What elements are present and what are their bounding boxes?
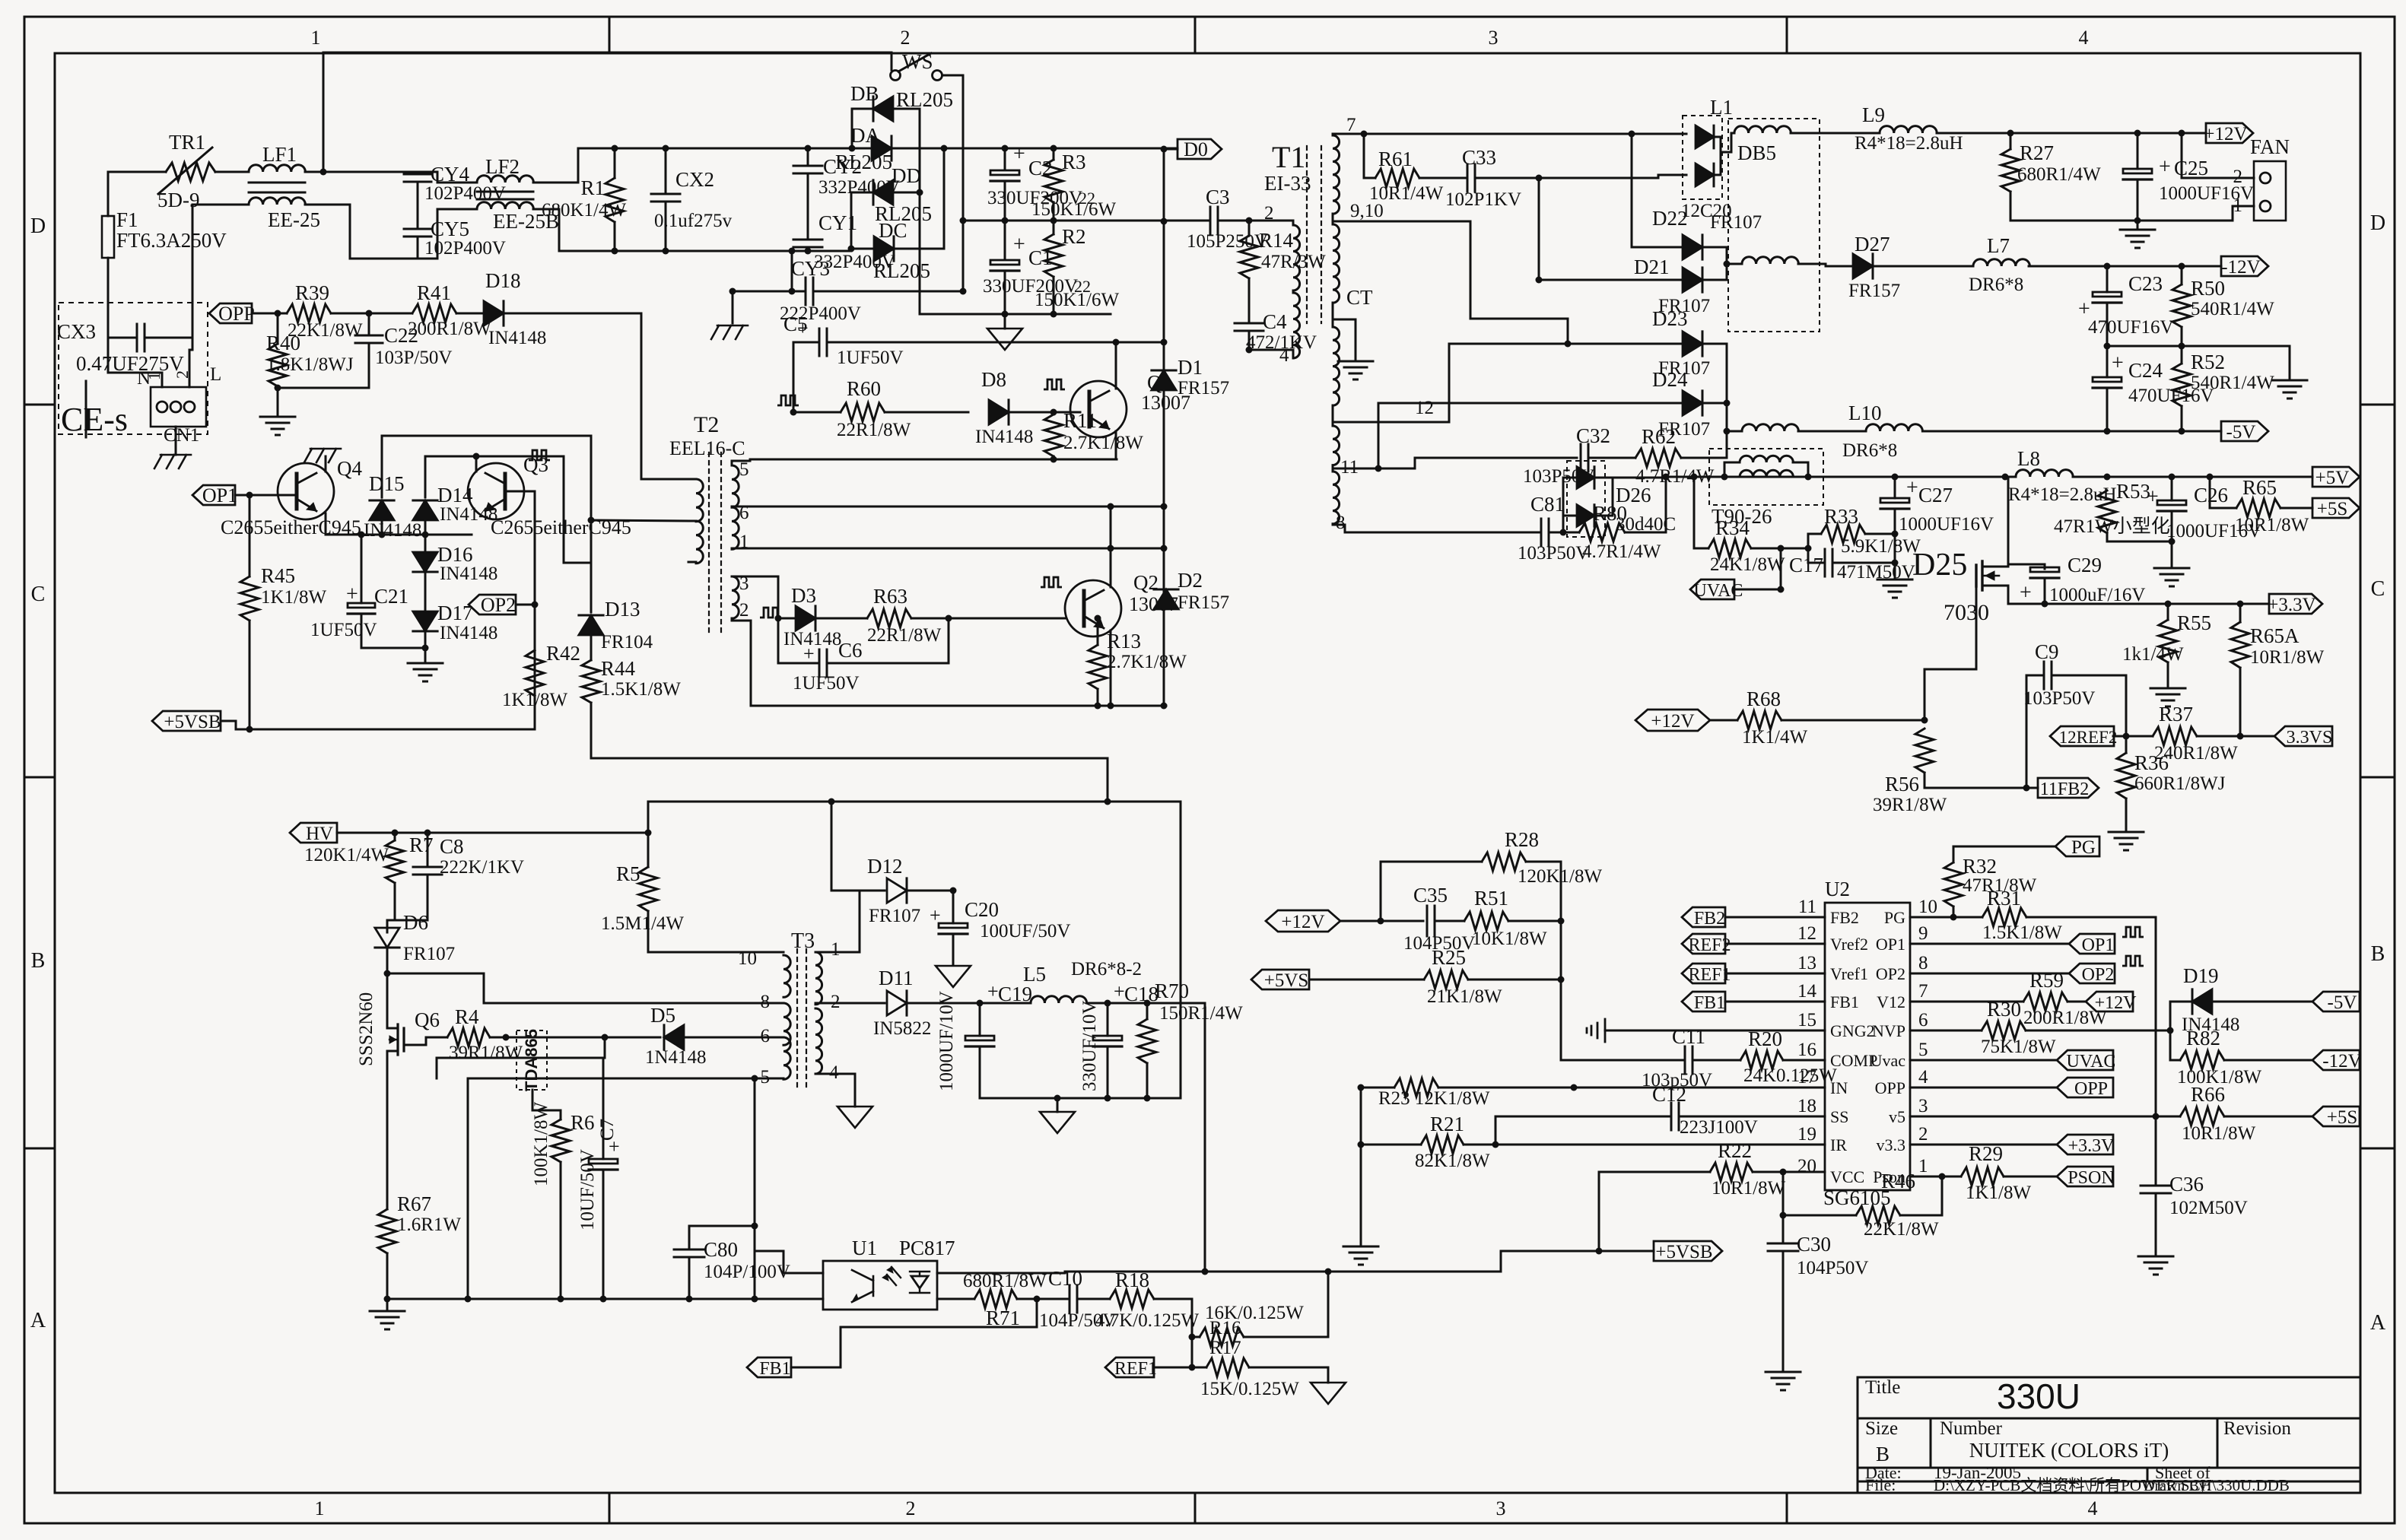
svg-text:GNG2: GNG2 [1830, 1021, 1875, 1040]
svg-text:File:: File: [1865, 1475, 1896, 1494]
svg-text:Size: Size [1865, 1418, 1898, 1439]
svg-text:22K1/8W: 22K1/8W [1864, 1219, 1939, 1240]
svg-text:C26: C26 [2194, 484, 2228, 506]
resistor R37 240R1/8W [2153, 727, 2197, 745]
svg-text:RL205: RL205 [873, 259, 930, 282]
wire CN1 to chassis ground [175, 427, 177, 455]
svg-text:R13: R13 [1107, 630, 1141, 653]
wire primary ground rail [387, 1298, 823, 1300]
svg-text:B: B [31, 949, 46, 973]
svg-text:D24: D24 [1652, 368, 1688, 391]
svg-text:C8: C8 [440, 835, 464, 858]
wire T3 pin2 row [815, 1002, 885, 1005]
dashed CE-s box [59, 303, 208, 434]
svg-text:R67: R67 [397, 1192, 431, 1215]
svg-text:R37: R37 [2159, 703, 2193, 726]
svg-text:1K1/8W: 1K1/8W [261, 587, 327, 608]
wire pin9 OP1 [1910, 943, 2069, 945]
svg-text:2.7K1/8W: 2.7K1/8W [1107, 652, 1187, 672]
svg-text:R65A: R65A [2250, 624, 2300, 647]
svg-text:NUITEK (COLORS iT): NUITEK (COLORS iT) [1969, 1439, 2169, 1462]
svg-text:+: + [2147, 485, 2159, 509]
svg-text:WS: WS [902, 50, 933, 73]
svg-text:+: + [2112, 351, 2124, 375]
resistor R34 24K1/8W [1694, 477, 1708, 548]
svg-text:FR107: FR107 [403, 944, 455, 964]
svg-text:FB1: FB1 [1694, 993, 1725, 1013]
inductor L9 R4*18=2.8uH [1880, 126, 1937, 133]
wire fan pins [2182, 133, 2254, 178]
svg-text:FR157: FR157 [1848, 281, 1900, 301]
wire [2113, 735, 2153, 738]
svg-text:-12V: -12V [2221, 257, 2260, 278]
net flag HV [290, 823, 337, 843]
zone tick marks [609, 17, 611, 53]
resistor R52 540R1/4W [2181, 346, 2183, 364]
wire snubber loop [831, 802, 833, 891]
capacitor C25 1000UF16V [2137, 133, 2139, 169]
resistor R28 120K1/8W [1381, 862, 1482, 921]
svg-text:SSS2N60: SSS2N60 [356, 992, 377, 1066]
svg-text:3: 3 [1489, 27, 1499, 49]
svg-text:Number: Number [1940, 1418, 2003, 1439]
svg-text:DA: DA [850, 124, 880, 147]
L1 winding +12V [1734, 126, 1791, 133]
svg-text:D1: D1 [1178, 356, 1203, 379]
svg-text:12REF2: 12REF2 [2059, 728, 2118, 747]
wire Q6 source [386, 1051, 389, 1209]
diode D1 FR157 [1152, 370, 1176, 390]
svg-text:24K1/8W: 24K1/8W [1710, 554, 1785, 575]
svg-text:680R1/8W: 680R1/8W [963, 1271, 1047, 1291]
svg-text:1: 1 [315, 1497, 325, 1519]
diode D6 FR107 [375, 928, 399, 948]
pulse waveform symbol [529, 450, 550, 460]
svg-text:D22: D22 [1652, 207, 1688, 230]
pulse waveform symbol [760, 608, 781, 618]
capacitor C33 102P1KV [1419, 177, 1467, 179]
svg-text:39R1/8W: 39R1/8W [1873, 795, 1947, 815]
thermistor TR1 [166, 163, 215, 181]
svg-text:104P50V: 104P50V [1797, 1258, 1868, 1278]
resistor R46 22K1/8W [1856, 1206, 1900, 1224]
wire pin14 [1725, 1001, 1825, 1003]
svg-text:10: 10 [1918, 897, 1937, 917]
wire [1791, 132, 1880, 135]
svg-text:1UF50V: 1UF50V [837, 348, 904, 368]
resistor R42 1K1/8W [526, 650, 544, 696]
svg-text:-5V: -5V [2226, 422, 2256, 443]
wire [108, 172, 166, 216]
transistor Q3 C2655/C945 [468, 463, 524, 519]
toroid choke T90-26 [1709, 449, 1823, 505]
diode D19 IN4148 [2170, 1002, 2190, 1030]
svg-text:540R1/4W: 540R1/4W [2191, 373, 2274, 393]
svg-text:C29: C29 [2068, 554, 2102, 576]
svg-text:C7: C7 [597, 1119, 618, 1141]
resistor R41 200R1/8W [412, 304, 456, 322]
svg-text:C: C [2371, 577, 2385, 601]
ground [2109, 832, 2144, 850]
svg-text:R36: R36 [2134, 751, 2169, 774]
svg-text:+3.3V: +3.3V [2068, 1136, 2115, 1156]
wire Q1 collector [1115, 342, 1117, 389]
wire PC817 collector to +5VSB rail [937, 1251, 1654, 1273]
svg-text:1000UF/10V: 1000UF/10V [936, 991, 957, 1091]
wire pin17 IN row [1361, 1087, 1394, 1089]
pulse waveform symbol [2122, 927, 2144, 937]
svg-text:CN1: CN1 [164, 425, 199, 446]
wire R44 bottom row [591, 703, 1108, 758]
wire [1340, 920, 1423, 922]
wire pin12 row [1333, 421, 1449, 424]
diode D13 FR104 [579, 615, 603, 635]
capacitor C3 105P250V [1210, 207, 1218, 234]
svg-text:+: + [1013, 233, 1025, 256]
svg-text:9: 9 [1918, 923, 1928, 944]
wire pin7 rail [1333, 133, 1686, 135]
resistor R65A 10R1/8W [2239, 604, 2242, 622]
svg-text:R6: R6 [571, 1111, 595, 1134]
resistor R31 1.5K1/8W [1982, 908, 2026, 926]
resistor R29 1K1/8W [1961, 1167, 2004, 1186]
svg-text:OP1: OP1 [1876, 935, 1905, 954]
svg-text:C25: C25 [2174, 157, 2208, 179]
svg-text:+: + [987, 980, 999, 1002]
wire CY3 row [733, 291, 806, 293]
resistor R4 39R1/8W [447, 1028, 490, 1046]
wire pin11 [1725, 916, 1825, 919]
svg-text:D23: D23 [1652, 307, 1688, 330]
resistor R68 1K1/4W [1710, 719, 1737, 722]
common-mode choke LF2 [477, 176, 533, 183]
wire D25 gate [1924, 584, 1976, 720]
svg-text:C: C [31, 583, 46, 606]
svg-text:REF1: REF1 [1688, 965, 1731, 985]
resistor R36 660R1/8WJ [2125, 736, 2128, 753]
pulse waveform symbol [777, 395, 799, 405]
net flag +12V [2206, 123, 2253, 143]
resistor R25 21K1/8W [1309, 979, 1424, 981]
svg-text:OP2: OP2 [1876, 964, 1905, 983]
svg-text:C80: C80 [704, 1238, 738, 1261]
resistor R70 150R1/4W [1146, 1003, 1149, 1019]
diode D15 IN4148 [381, 436, 383, 497]
T1 secondary winding [1333, 135, 1340, 214]
T1 core [1307, 146, 1321, 323]
svg-text:FR157: FR157 [1178, 592, 1229, 613]
wire PC817 LED cathode row [937, 1298, 974, 1300]
svg-text:A: A [30, 1309, 46, 1332]
resistor R50 540R1/4W [2181, 266, 2183, 284]
svg-text:103P/50V: 103P/50V [375, 348, 452, 368]
net flag +12V pin7 [2086, 992, 2133, 1011]
svg-text:82K1/8W: 82K1/8W [1415, 1151, 1490, 1171]
wire [1734, 548, 1781, 589]
svg-text:+5S: +5S [2327, 1107, 2358, 1128]
svg-text:R17: R17 [1209, 1338, 1241, 1358]
capacitor C6 1UF50V [819, 649, 827, 677]
wire D18 to T2 primary [504, 313, 688, 479]
diode D5 1N4148 [604, 1037, 606, 1058]
wire [942, 75, 963, 291]
transistor Q2 13007 [1065, 580, 1121, 637]
svg-text:680R1/4W: 680R1/4W [2017, 164, 2101, 185]
svg-text:R52: R52 [2191, 351, 2225, 373]
svg-text:FT6.3A250V: FT6.3A250V [116, 229, 227, 252]
svg-text:C35: C35 [1413, 884, 1448, 907]
ground [1877, 579, 1912, 598]
svg-text:REF2: REF2 [1688, 935, 1731, 955]
svg-text:C33: C33 [1462, 146, 1496, 169]
svg-text:D6: D6 [403, 911, 428, 934]
wire [1631, 134, 1633, 247]
chassis earth ground [711, 325, 748, 339]
svg-text:V12: V12 [1877, 992, 1905, 1011]
capacitor C19 1000UF/10V [979, 1003, 981, 1036]
capacitor C4 472/1KV [1248, 278, 1251, 322]
capacitor C12 223J100V [1671, 1103, 1679, 1130]
svg-text:470UF16V: 470UF16V [2088, 317, 2174, 338]
svg-text:OP2: OP2 [481, 594, 516, 616]
wire -12V row [1798, 264, 1826, 266]
svg-text:L7: L7 [1987, 234, 2010, 257]
svg-text:R33: R33 [1824, 505, 1858, 528]
capacitor C35 104P50V [1427, 906, 1435, 936]
wire [418, 172, 477, 183]
svg-text:C12: C12 [1652, 1083, 1686, 1106]
svg-text:+: + [346, 583, 358, 606]
PC817 phototransistor [852, 1270, 873, 1302]
svg-text:R82: R82 [2186, 1027, 2220, 1049]
power ground [1004, 314, 1006, 329]
svg-text:100K1/8W: 100K1/8W [531, 1102, 551, 1187]
svg-text:D19: D19 [2183, 964, 2219, 987]
wire Q3 collector [476, 456, 591, 563]
wire [943, 148, 946, 249]
capacitor C26 1000UF16V [2171, 477, 2173, 500]
resistor R7 120K1/4W [394, 833, 396, 840]
svg-text:CT: CT [1346, 286, 1373, 309]
svg-text:FR107: FR107 [1710, 212, 1762, 233]
svg-text:R16: R16 [1209, 1318, 1241, 1338]
svg-text:102P400V: 102P400V [424, 183, 506, 204]
resistor R82 100K1/8W [2170, 1030, 2180, 1060]
wire mid -12V [2107, 346, 2290, 379]
diode DC [851, 248, 875, 250]
wire [424, 648, 427, 662]
optocoupler U1 PC817 [823, 1261, 937, 1310]
svg-text:+5S: +5S [2317, 499, 2348, 519]
signal ground pin15 [1587, 1019, 1605, 1042]
ground [2272, 380, 2307, 398]
net flag OP2 [469, 595, 516, 614]
wire Q4 emitter to bus [326, 513, 472, 535]
wire [386, 948, 389, 1027]
svg-text:R60: R60 [847, 377, 881, 400]
svg-text:120K1/4W: 120K1/4W [304, 845, 389, 865]
svg-text:+5VS: +5VS [1264, 970, 1309, 991]
svg-text:R44: R44 [601, 657, 636, 680]
svg-text:1N4148: 1N4148 [645, 1047, 707, 1068]
ground [2137, 221, 2139, 228]
diode D3 IN4148 [778, 618, 796, 620]
power ground [837, 1107, 872, 1128]
svg-text:R11: R11 [1063, 409, 1097, 432]
svg-text:NVP: NVP [1872, 1021, 1905, 1040]
capacitor C23 470UF16V [2106, 266, 2109, 292]
svg-text:1.5M1/4W: 1.5M1/4W [601, 913, 684, 934]
svg-text:R41: R41 [417, 281, 451, 304]
svg-text:R1: R1 [580, 176, 605, 199]
resistor R65 10R1/8W [2210, 477, 2236, 508]
svg-text:v3.3: v3.3 [1877, 1135, 1906, 1154]
capacitor C18 330UF/10V [1107, 1003, 1109, 1036]
wire aux supply to PC817 [754, 1078, 756, 1299]
svg-text:Q4: Q4 [337, 457, 362, 480]
diode D8 IN4148 [989, 400, 1009, 424]
svg-text:R46: R46 [1881, 1170, 1915, 1192]
svg-text:21K1/8W: 21K1/8W [1427, 986, 1502, 1007]
capacitor C17 471M50V [1825, 549, 1832, 576]
svg-text:Vref1: Vref1 [1830, 964, 1868, 983]
dual diode DB5 12C20 [1683, 116, 1722, 199]
net flag OPP pin4 [2057, 1078, 2113, 1097]
svg-text:REF1: REF1 [1114, 1359, 1157, 1379]
resistor R6 100K1/8W [560, 1110, 562, 1119]
svg-text:OPP: OPP [218, 303, 255, 325]
svg-text:8: 8 [1918, 953, 1928, 973]
ground [1766, 1372, 1801, 1390]
svg-text:IN4148: IN4148 [440, 623, 497, 643]
svg-text:10R1/8W: 10R1/8W [1712, 1178, 1786, 1199]
wire [815, 618, 867, 620]
resistor R22 10R1/8W [1599, 1171, 1710, 1173]
wire Q1 emitter [1115, 431, 1117, 459]
svg-text:+12V: +12V [2095, 993, 2137, 1013]
diode D11 IN5822 [887, 991, 907, 1015]
wire T3 aux row y1418 [468, 1078, 783, 1080]
svg-text:100K1/8W: 100K1/8W [2177, 1067, 2262, 1088]
capacitor C8 222K/1KV [427, 833, 429, 865]
resistor R61 10R1/4W [1364, 134, 1375, 178]
svg-text:T3: T3 [791, 929, 815, 953]
wire pin3 top [732, 576, 778, 663]
resistor R40 1.8K1/8WJ [277, 313, 279, 344]
wire pin1 rail [732, 548, 1164, 550]
resistor R13 2.7K1/8W [1089, 645, 1107, 689]
resistor R55 1k1/4W [2167, 604, 2169, 620]
svg-text:IR: IR [1830, 1135, 1847, 1154]
svg-text:1: 1 [831, 939, 841, 960]
wire +5VSB feed [1204, 1003, 1206, 1272]
wire pin3 v5 [1910, 1116, 2180, 1118]
resistor R20 24K0.125W [1740, 1051, 1783, 1069]
inductor L8 R4*18=2.8uH [2016, 470, 2073, 477]
ground [2154, 568, 2189, 586]
svg-text:3: 3 [1918, 1096, 1928, 1116]
wire top loop [323, 52, 892, 172]
transformer T2 primary winding [696, 479, 703, 522]
svg-text:1000UF16V: 1000UF16V [1899, 514, 1994, 535]
wire +5V rail [1666, 476, 1724, 478]
svg-text:R32: R32 [1963, 855, 1997, 878]
svg-text:D25: D25 [1912, 548, 1967, 583]
capacitor C80 104P/100V [689, 1225, 755, 1227]
ground [260, 417, 295, 435]
svg-text:R62: R62 [1642, 425, 1676, 448]
net flag OPP [209, 303, 252, 323]
svg-text:IN4148: IN4148 [440, 564, 497, 584]
svg-text:R56: R56 [1885, 773, 1919, 795]
svg-text:-12V: -12V [2322, 1051, 2361, 1072]
wire +12V rail [1937, 132, 2206, 135]
svg-text:CE-s: CE-s [61, 401, 128, 438]
svg-text:D11: D11 [879, 967, 914, 989]
wire [386, 1299, 389, 1310]
net flag +12V (hex) [1266, 910, 1340, 932]
svg-text:150K1/6W: 150K1/6W [1031, 199, 1117, 220]
wire earth stub [732, 291, 734, 323]
pulse waveform symbol [1041, 577, 1062, 587]
chassis earth ground [154, 455, 191, 468]
svg-text:1.5K1/8W: 1.5K1/8W [601, 679, 681, 700]
resistor R56 39R1/8W [1915, 729, 1934, 773]
net flag OP1 pin9 [2069, 934, 2115, 954]
wire pin7 V12 [1910, 1001, 2023, 1003]
svg-text:R61: R61 [1378, 148, 1413, 170]
svg-text:D0: D0 [1184, 138, 1208, 160]
svg-text:IN4148: IN4148 [488, 328, 546, 348]
net flag FB1 [1682, 992, 1725, 1011]
wire [107, 258, 110, 338]
svg-text:CX3: CX3 [57, 320, 96, 343]
svg-text:1UF50V: 1UF50V [793, 673, 860, 694]
svg-text:T1: T1 [1272, 140, 1305, 174]
wire [85, 381, 87, 437]
svg-text:103P50V: 103P50V [2023, 688, 2095, 709]
wire bottom rail [920, 313, 1111, 316]
svg-text:+: + [803, 643, 815, 665]
net flag +12V (R68 feed) [1635, 710, 1710, 731]
svg-text:C36: C36 [2169, 1173, 2204, 1195]
net flag -5V (sense) [2312, 992, 2360, 1011]
svg-text:1K1/8W: 1K1/8W [1966, 1183, 2032, 1203]
svg-text:Uvac: Uvac [1870, 1051, 1906, 1070]
svg-text:DR6*8: DR6*8 [1842, 440, 1897, 461]
svg-text:VCC: VCC [1830, 1167, 1864, 1186]
resistor R39 22K1/8W [287, 304, 331, 322]
svg-text:4: 4 [1279, 345, 1289, 366]
svg-text:OP2: OP2 [2082, 965, 2115, 985]
svg-text:C6: C6 [838, 639, 863, 662]
wire pin11 row [1333, 468, 1415, 470]
net flag 11FB2 [2026, 787, 2038, 789]
svg-text:C3: C3 [1206, 186, 1230, 208]
svg-text:4.7R1/4W: 4.7R1/4W [1582, 541, 1661, 562]
svg-text:R18: R18 [1115, 1269, 1149, 1291]
svg-text:Drawn By:: Drawn By: [2144, 1478, 2211, 1494]
Y-capacitor CY2 [807, 148, 809, 166]
svg-text:11FB2: 11FB2 [2040, 780, 2089, 799]
transistor Q1 13007 [1070, 381, 1127, 437]
wire pin15 GNG2 [1605, 1030, 1825, 1032]
svg-text:R70: R70 [1155, 980, 1189, 1002]
pulse waveform symbol [1044, 379, 1065, 389]
wire R23 to ground [1360, 1088, 1362, 1245]
Y-capacitor CY5 [404, 229, 431, 237]
svg-text:1.5K1/8W: 1.5K1/8W [1982, 922, 2062, 943]
